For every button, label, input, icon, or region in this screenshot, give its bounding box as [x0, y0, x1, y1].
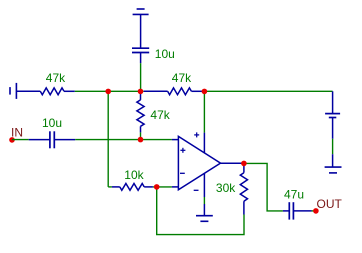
- junction node rail/V+: [202, 89, 208, 95]
- op-amp U1 V- mark: [194, 189, 199, 191]
- wire C2 to op-amp +in: [75, 139, 172, 141]
- resistor R5 30k (vertical): [240, 163, 247, 214]
- op-amp U1 +in pin stub: [172, 139, 179, 141]
- op-amp U1 V- pin: [203, 173, 205, 197]
- wire R3 to IN line: [140, 132, 142, 139]
- port IN dot: [9, 137, 15, 143]
- port OUT dot: [313, 208, 319, 214]
- resistor R2 47k (horizontal): [144, 88, 204, 95]
- svg-text:IN: IN: [11, 125, 23, 139]
- svg-text:47k: 47k: [46, 71, 66, 85]
- svg-text:47u: 47u: [284, 187, 304, 201]
- junction node rail/feedback: [105, 89, 111, 95]
- op-amp U1 -in pin stub: [172, 186, 179, 188]
- wire C3 to OUT: [312, 210, 316, 212]
- ground GND4 (right): [325, 154, 342, 173]
- op-amp U1 triangle: [178, 136, 220, 189]
- capacitor C4 (right, polarized): [325, 91, 340, 139]
- wire feedback lower loop: [157, 187, 244, 235]
- svg-text:10k: 10k: [124, 168, 144, 182]
- wire C4 to GND4: [332, 139, 334, 154]
- ground GND3 (below op-amp): [196, 204, 213, 221]
- wire IN to C2: [12, 139, 29, 141]
- wire output to C3 corner: [242, 163, 283, 211]
- resistor R4 10k (horizontal): [112, 184, 153, 191]
- op-amp U1 V+ mark: [194, 132, 199, 137]
- wire feedback vertical from rail to 10k: [107, 91, 109, 187]
- op-amp U1 -input mark: [180, 172, 185, 174]
- svg-text:10u: 10u: [42, 116, 62, 130]
- op-amp U1 V+ pin: [203, 133, 205, 153]
- op-amp U1 +input mark: [180, 148, 185, 153]
- svg-text:10u: 10u: [155, 47, 175, 61]
- wire V+ pin to rail: [203, 91, 205, 132]
- wire rail left segment: [75, 90, 144, 92]
- junction node R3 bottom / IN line: [138, 137, 144, 143]
- ground GND1 (top, pointing up): [133, 9, 149, 48]
- svg-text:OUT: OUT: [317, 197, 343, 211]
- capacitor C3 47u (horizontal): [283, 202, 312, 219]
- svg-text:47k: 47k: [150, 108, 170, 122]
- wire rail right segment: [204, 90, 333, 92]
- wire R4 to op-amp -in: [153, 186, 172, 188]
- resistor R1 47k (horizontal): [16, 88, 74, 95]
- svg-text:47k: 47k: [172, 71, 192, 85]
- junction node rail/R3 top: [138, 89, 144, 95]
- wire corner to R4: [108, 186, 112, 188]
- svg-text:30k: 30k: [216, 181, 236, 195]
- op-amp U1 output pin: [221, 162, 243, 164]
- capacitor C1 10u (vertical): [132, 48, 149, 63]
- capacitor C2 10u (horizontal): [29, 131, 75, 148]
- resistor R3 47k (vertical): [137, 91, 144, 132]
- junction node -in / feedback: [154, 184, 160, 190]
- junction node output: [241, 161, 247, 167]
- wire C1 to rail: [140, 63, 142, 91]
- ground GND2 (left, pointing left): [10, 83, 16, 99]
- wire V- pin to ground: [203, 197, 205, 204]
